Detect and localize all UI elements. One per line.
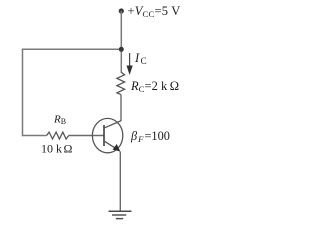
svg-text:IC: IC: [134, 51, 147, 66]
current arrow Ic: [127, 53, 133, 75]
ground: [109, 211, 132, 218]
transistor Q1: [92, 118, 122, 152]
svg-text:RC=2 kΩ: RC=2 kΩ: [130, 79, 179, 94]
svg-text:+VCC=5 V: +VCC=5 V: [128, 4, 181, 19]
wire Rc to collector: [120, 95, 122, 122]
wire base lead: [69, 135, 104, 137]
wire top horizontal: [22, 48, 122, 50]
node junction: [119, 47, 124, 52]
power terminal dot: [119, 8, 124, 13]
resistor RB: [47, 132, 69, 139]
wire Rb left lead: [22, 135, 47, 137]
svg-text:10 kΩ: 10 kΩ: [41, 142, 73, 156]
wire collector rail: [120, 11, 122, 73]
wire left vertical: [22, 49, 24, 137]
svg-text:RB: RB: [53, 114, 66, 127]
resistor RC: [117, 72, 125, 95]
wire emitter: [119, 152, 121, 212]
svg-text:βF=100: βF=100: [130, 129, 170, 144]
